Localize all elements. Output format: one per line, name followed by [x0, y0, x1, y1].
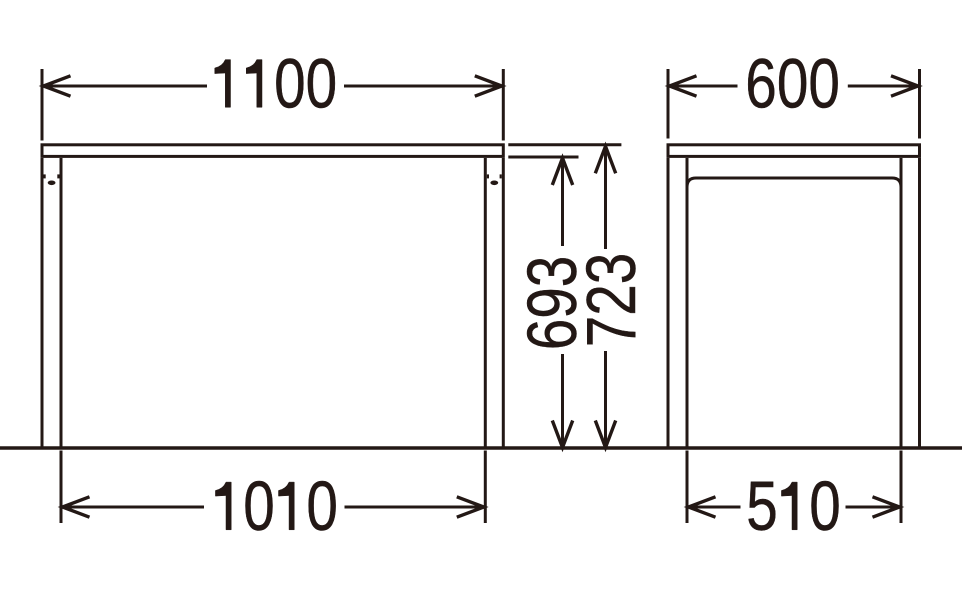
dimension 1010 line left segment [63, 506, 205, 509]
dimension 1010 right arrowhead [457, 497, 484, 517]
dimension 600 left arrowhead [670, 76, 697, 96]
height extension line under tabletop [508, 156, 578, 159]
svg-text:00: 00 [274, 45, 337, 123]
height extension line at tabletop surface [508, 143, 621, 146]
dimension 723 line lower segment [604, 351, 607, 448]
dimension 1100 line left segment [44, 85, 208, 88]
dimension 1100 right arrowhead [475, 76, 502, 96]
apron top edge (side view) [687, 178, 901, 187]
dimension 1100 right extension line [502, 69, 505, 141]
label 1100 (digits 0) [215, 45, 337, 123]
dimension 510 right extension line [900, 451, 903, 524]
dimension 600 right arrowhead [891, 76, 918, 96]
dimension 510 right arrowhead [873, 497, 900, 517]
dimension 693 up arrowhead [552, 158, 572, 185]
table top (front view) [42, 145, 503, 157]
dimension 723 line upper segment [604, 146, 607, 249]
dimension 1100 left arrowhead [44, 76, 71, 96]
table top (side view) [668, 145, 920, 157]
dimension 510 left extension line [686, 451, 689, 524]
label 510 digit 1 (custom footless glyph) [781, 482, 797, 530]
dimension 1100 line right segment [344, 85, 502, 88]
dimension 510 left arrowhead [689, 497, 716, 517]
dimension 693 line lower segment [561, 354, 564, 448]
front right leg inner edge [484, 158, 487, 450]
dimension 723 down arrowhead [595, 421, 615, 448]
side left leg outer edge [667, 158, 670, 450]
dimension 600 line left segment [670, 85, 738, 88]
label 1010 (digits 0) [215, 467, 337, 545]
label 1010 digit 1 #1 (custom footless glyph) [215, 482, 231, 530]
dimension 1010 left extension line [60, 451, 63, 524]
side right leg outer edge [918, 158, 921, 450]
dimension 1010 right extension line [484, 451, 487, 524]
dimension 1100 left extension line [41, 69, 44, 141]
dimension 723 up arrowhead [595, 146, 615, 173]
side right leg inner edge [900, 158, 903, 450]
dimension 1010 line right segment [345, 506, 484, 509]
dimension 600 line right segment [848, 85, 918, 88]
label 1100 digit 1 #1 (custom footless glyph) [215, 60, 231, 108]
side left leg inner edge [686, 158, 689, 450]
dimension 510 line right segment [846, 506, 900, 509]
dimension 1010 left arrowhead [63, 497, 90, 517]
dimension 600 left extension line [667, 69, 670, 139]
dimension 693 down arrowhead [552, 421, 572, 448]
front right leg outer edge [502, 158, 505, 450]
front left leg adjuster ticks [44, 174, 60, 185]
svg-text:600: 600 [745, 45, 840, 123]
label 1100 digit 1 #2 (custom footless glyph) [246, 60, 262, 108]
svg-text:723: 723 [572, 253, 650, 348]
dimension 600 right extension line [918, 69, 921, 139]
label 1010 digit 1 #2 (custom footless glyph) [279, 482, 295, 530]
label 510 (digits 5 and 0) [746, 467, 841, 545]
dimension 693 line upper segment [561, 158, 564, 246]
dimension 510 line left segment [689, 506, 741, 509]
floor line [0, 446, 962, 449]
front left leg outer edge [41, 158, 44, 450]
front left leg inner edge [60, 158, 63, 450]
front right leg adjuster ticks [487, 174, 502, 185]
